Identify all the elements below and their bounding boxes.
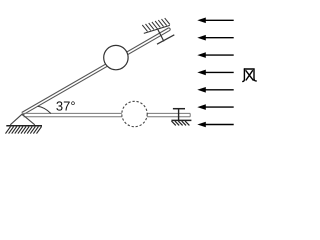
pivot ground line <box>6 125 42 127</box>
top-right anchor pin (perpendicular to rod) <box>157 28 164 41</box>
pivot pin-support triangle <box>10 114 35 125</box>
horizontal rod (double-line outline) <box>22 113 191 116</box>
top-right wall hatching <box>142 18 170 31</box>
right anchor ground line <box>171 119 191 121</box>
wind arrow 2 <box>197 35 233 41</box>
ball on inclined rod <box>104 45 128 69</box>
wind arrow 5 <box>197 87 233 93</box>
wind arrow 1 <box>197 18 233 24</box>
wind arrow 6 <box>197 104 233 110</box>
right anchor pin <box>178 109 180 121</box>
dashed ball on horizontal rod <box>122 101 147 126</box>
right anchor ground hatching <box>172 121 190 125</box>
inclined rod (double-line outline, 30 deg) <box>22 28 171 115</box>
top-right wall line <box>144 25 170 33</box>
wind arrow 7 <box>197 122 233 128</box>
top-right anchor cap bar <box>157 35 174 44</box>
wind label (hand-drawn CJK glyph feng) <box>243 69 256 82</box>
pivot ground hatching <box>6 127 42 134</box>
svg-text:37°: 37° <box>56 99 76 114</box>
angle arc <box>38 106 51 113</box>
right anchor T-cap <box>173 108 185 110</box>
wind arrow 3 <box>197 52 233 58</box>
wind arrow 4 <box>197 70 233 76</box>
